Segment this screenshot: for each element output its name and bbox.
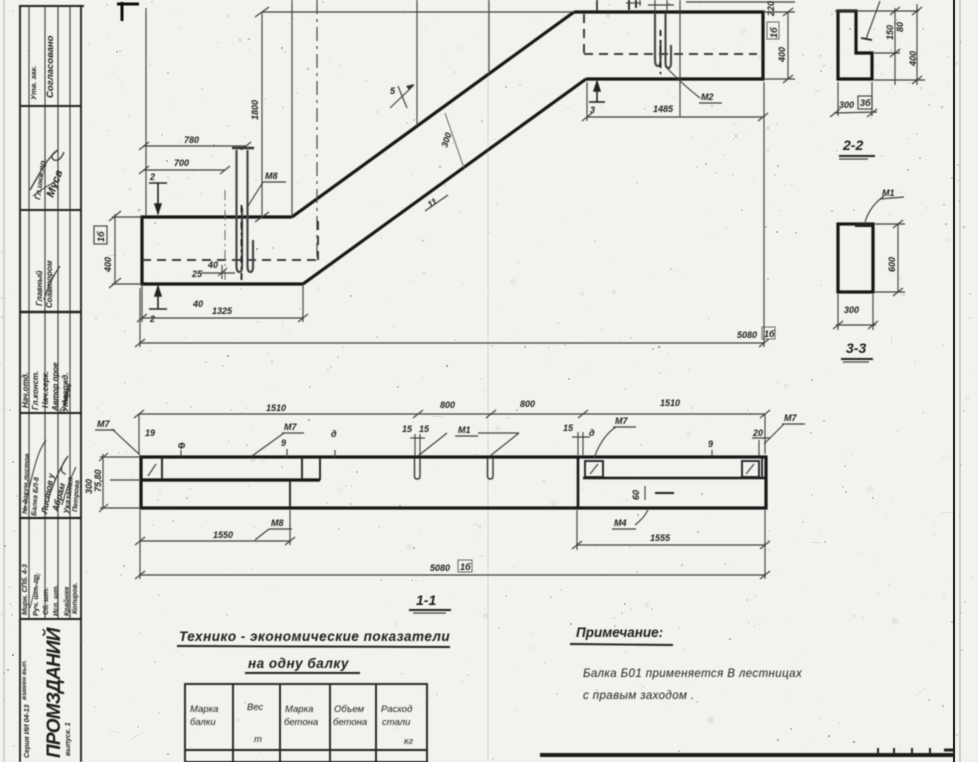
svg-text:15: 15 xyxy=(402,424,413,434)
svg-text:1550: 1550 xyxy=(213,530,233,540)
svg-text:М8: М8 xyxy=(271,518,284,528)
svg-text:Расход: Расход xyxy=(381,704,412,715)
svg-text:700: 700 xyxy=(174,158,189,168)
svg-text:1800: 1800 xyxy=(250,100,260,120)
svg-text:3-3: 3-3 xyxy=(846,340,866,356)
svg-text:М7: М7 xyxy=(284,422,297,432)
svg-text:М7: М7 xyxy=(784,413,797,423)
svg-text:300: 300 xyxy=(844,305,859,315)
svg-text:Ф: Ф xyxy=(178,441,185,451)
svg-text:балки: балки xyxy=(190,717,216,728)
svg-text:9: 9 xyxy=(281,438,286,448)
svg-text:М7: М7 xyxy=(615,416,628,426)
svg-text:Технико - экономические пока: Технико - экономические показатели xyxy=(179,629,450,644)
svg-text:15: 15 xyxy=(563,423,574,433)
svg-text:400: 400 xyxy=(103,257,113,273)
svg-text:Автор прое: Автор прое xyxy=(51,362,60,412)
svg-text:15: 15 xyxy=(419,424,430,434)
svg-text:бетона: бетона xyxy=(284,717,318,728)
svg-text:Главный: Главный xyxy=(35,270,44,306)
svg-text:Объем: Объем xyxy=(334,704,364,715)
svg-text:1б: 1б xyxy=(460,562,471,572)
svg-text:5080: 5080 xyxy=(430,563,450,573)
svg-text:1555: 1555 xyxy=(650,533,671,543)
svg-text:Вес: Вес xyxy=(247,702,264,713)
svg-text:40: 40 xyxy=(207,260,218,270)
svg-text:Мирн. СПб. 4-3: Мирн. СПб. 4-3 xyxy=(21,564,29,615)
svg-text:600: 600 xyxy=(887,257,897,272)
svg-text:25: 25 xyxy=(191,269,203,279)
svg-text:М8: М8 xyxy=(265,171,278,181)
svg-text:1510: 1510 xyxy=(660,398,680,408)
svg-text:Сб. шт.: Сб. шт. xyxy=(42,587,50,615)
svg-text:9: 9 xyxy=(708,439,713,449)
svg-text:400: 400 xyxy=(908,51,918,67)
svg-text:М4: М4 xyxy=(614,518,627,528)
svg-text:Марка: Марка xyxy=(190,704,218,715)
svg-text:1485: 1485 xyxy=(653,104,674,114)
svg-text:выпуск. 1: выпуск. 1 xyxy=(65,722,72,756)
svg-text:М2: М2 xyxy=(701,92,714,102)
svg-text:1510: 1510 xyxy=(266,403,286,413)
svg-text:40: 40 xyxy=(192,299,203,309)
svg-text:кг: кг xyxy=(404,736,413,747)
svg-text:1-1: 1-1 xyxy=(416,592,436,608)
svg-text:60: 60 xyxy=(631,490,641,500)
svg-text:Утв. зак.: Утв. зак. xyxy=(29,66,38,100)
svg-text:1б: 1б xyxy=(96,231,106,242)
svg-text:Балка Б01 применяется В ле: Балка Б01 применяется В лестницах xyxy=(583,668,803,680)
svg-text:400: 400 xyxy=(777,47,787,63)
svg-text:Согласовано: Согласовано xyxy=(45,35,56,98)
svg-text:М1: М1 xyxy=(882,188,895,198)
svg-text:300: 300 xyxy=(839,100,854,110)
svg-text:20: 20 xyxy=(752,428,763,438)
svg-text:Исп. шт.: Исп. шт. xyxy=(53,585,60,616)
svg-text:1б: 1б xyxy=(764,329,775,339)
svg-text:на одну балку: на одну балку xyxy=(248,656,350,671)
svg-text:800: 800 xyxy=(440,400,455,410)
svg-text:Копиров.: Копиров. xyxy=(72,582,79,614)
svg-text:800: 800 xyxy=(520,399,535,409)
svg-text:780: 780 xyxy=(184,135,199,145)
svg-text:2: 2 xyxy=(149,172,155,182)
svg-text:80: 80 xyxy=(895,22,905,32)
svg-text:Нач.отд.: Нач.отд. xyxy=(21,372,30,408)
svg-text:Гл.конст.: Гл.конст. xyxy=(31,371,40,410)
svg-text:2: 2 xyxy=(149,314,155,324)
svg-text:2-2: 2-2 xyxy=(842,137,863,153)
svg-text:150: 150 xyxy=(885,25,895,40)
svg-text:19: 19 xyxy=(145,428,155,438)
svg-text:д: д xyxy=(331,429,337,439)
svg-text:М1: М1 xyxy=(458,425,471,435)
svg-text:5080: 5080 xyxy=(737,330,757,340)
svg-text:Марка: Марка xyxy=(285,704,313,715)
svg-text:ПРОМЗДАНИЙ: ПРОМЗДАНИЙ xyxy=(43,627,65,758)
svg-text:75,80: 75,80 xyxy=(93,469,103,492)
svg-text:1б: 1б xyxy=(769,27,779,38)
svg-text:т: т xyxy=(254,734,262,745)
svg-text:1325: 1325 xyxy=(212,306,233,316)
svg-text:Крайняя: Крайняя xyxy=(63,587,71,616)
svg-text:Серия ИИ 04-13: Серия ИИ 04-13 xyxy=(24,704,31,758)
svg-text:3б: 3б xyxy=(860,98,871,108)
svg-text:Нач.серк.: Нач.серк. xyxy=(41,371,50,408)
svg-text:Примечание:: Примечание: xyxy=(576,625,663,640)
svg-text:220: 220 xyxy=(766,1,776,17)
svg-text:М7: М7 xyxy=(97,419,110,429)
